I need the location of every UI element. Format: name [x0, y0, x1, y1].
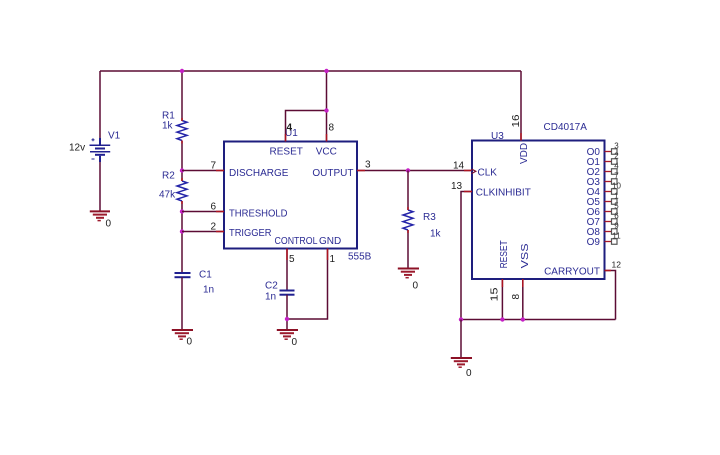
svg-text:TRIGGER: TRIGGER: [229, 228, 272, 239]
capacitor C1: [175, 273, 191, 277]
wire C2 bottom: [286, 295, 288, 330]
svg-text:C1: C1: [199, 270, 212, 281]
svg-text:7: 7: [210, 161, 216, 172]
svg-text:9: 9: [614, 222, 619, 231]
svg-text:15: 15: [490, 287, 501, 302]
svg-text:0: 0: [413, 281, 419, 292]
svg-text:1k: 1k: [162, 121, 174, 132]
wire pin 6: [182, 211, 224, 213]
svg-text:14: 14: [453, 161, 465, 172]
pin 4 wire: [286, 111, 327, 142]
capacitor C2: [280, 291, 295, 295]
wire bottom rail: [461, 319, 616, 321]
svg-text:47k: 47k: [159, 190, 176, 201]
svg-text:0: 0: [106, 219, 112, 230]
svg-text:RESET: RESET: [499, 240, 510, 268]
ground 0 (U3): [451, 358, 472, 379]
svg-text:1: 1: [614, 192, 619, 201]
svg-text:13: 13: [451, 181, 463, 192]
node junction pin8/rail: [521, 317, 525, 321]
svg-text:VSS: VSS: [520, 243, 531, 268]
svg-text:3: 3: [365, 160, 371, 171]
svg-text:6: 6: [210, 202, 216, 213]
ground 0 (V1): [90, 211, 112, 229]
resistor R2: [177, 181, 187, 201]
svg-text:GND: GND: [319, 236, 341, 247]
wire pin 7: [182, 170, 224, 172]
svg-text:10: 10: [612, 182, 621, 191]
wire pin 15: [501, 279, 503, 320]
wire R1 column top: [181, 71, 183, 121]
svg-text:4: 4: [287, 123, 293, 134]
wire R2 bottom to C1: [181, 201, 183, 273]
node junction top rail / R1: [180, 69, 184, 73]
svg-text:11: 11: [612, 232, 621, 241]
svg-text:DISCHARGE: DISCHARGE: [229, 168, 289, 179]
node junction top rail / VCC: [324, 69, 328, 73]
output pin numbers: [612, 142, 621, 241]
svg-text:O9: O9: [587, 237, 601, 248]
svg-text:U3: U3: [491, 131, 504, 142]
svg-text:VDD: VDD: [519, 143, 530, 164]
svg-text:THRESHOLD: THRESHOLD: [229, 209, 288, 220]
ground 0 (C2): [277, 330, 298, 348]
svg-text:CLKINHIBIT: CLKINHIBIT: [476, 188, 531, 199]
node junction pin15/rail: [500, 317, 504, 321]
svg-text:555B: 555B: [348, 252, 372, 263]
svg-text:8: 8: [329, 123, 335, 134]
svg-text:C2: C2: [265, 281, 278, 292]
svg-text:7: 7: [614, 172, 619, 181]
resistor R3: [403, 210, 413, 230]
output terminal squares: [612, 149, 618, 245]
wire pin 3 output: [357, 170, 472, 172]
IC U3 CD4017A box: [472, 141, 605, 280]
wire pin 8 (VSS): [522, 279, 524, 320]
svg-text:0: 0: [292, 337, 298, 348]
svg-text:1n: 1n: [265, 292, 276, 303]
op-amp-style IC U1 555 timer box: [224, 142, 357, 249]
node pin2 junction: [180, 229, 184, 233]
svg-text:V1: V1: [108, 131, 121, 142]
svg-text:RESET: RESET: [270, 147, 303, 158]
output pin stubs: [605, 152, 612, 242]
wire V1 bottom: [99, 157, 101, 211]
wire R1 bottom to R2: [181, 141, 183, 182]
svg-text:VCC: VCC: [316, 147, 337, 158]
svg-text:8: 8: [511, 294, 522, 300]
node junction C2 / pin1: [285, 317, 289, 321]
wire pin 1: [287, 249, 328, 320]
svg-text:5: 5: [614, 202, 619, 211]
battery V1: [90, 138, 111, 162]
pin 8 wire: [326, 71, 328, 142]
node junction output / R3: [406, 168, 410, 172]
svg-text:3: 3: [614, 142, 619, 151]
svg-text:0: 0: [466, 368, 472, 379]
svg-text:OUTPUT: OUTPUT: [312, 168, 353, 179]
svg-text:CARRYOUT: CARRYOUT: [544, 267, 600, 278]
node pin6 junction: [180, 209, 184, 213]
node junction pin4/pin8: [324, 108, 328, 112]
svg-text:5: 5: [289, 254, 295, 265]
svg-text:6: 6: [614, 212, 619, 221]
svg-text:CLK: CLK: [478, 168, 498, 179]
svg-text:16: 16: [511, 114, 522, 128]
outputs O0-O9: [587, 147, 601, 248]
svg-text:CD4017A: CD4017A: [544, 122, 588, 133]
svg-text:0: 0: [187, 337, 193, 348]
svg-text:4: 4: [614, 162, 619, 171]
svg-text:1k: 1k: [430, 229, 442, 240]
svg-text:2: 2: [614, 152, 619, 161]
wire rail to ground: [460, 320, 462, 358]
resistor R1: [177, 121, 187, 141]
svg-text:12v: 12v: [69, 143, 85, 154]
wire C1 bottom: [181, 277, 183, 329]
svg-text:2: 2: [210, 222, 216, 233]
svg-text:R3: R3: [423, 212, 436, 223]
wire pin 12 carryout: [605, 271, 616, 320]
wire pin 16 VDD: [520, 71, 522, 141]
svg-text:CONTROL: CONTROL: [275, 236, 318, 247]
wire R3 top: [407, 171, 409, 211]
wire top rail: [100, 70, 521, 72]
wire pin 5: [286, 249, 288, 291]
wire pin 13: [461, 192, 472, 320]
wire pin 2: [182, 231, 224, 233]
svg-text:12: 12: [612, 260, 622, 270]
wire V1 top: [99, 71, 101, 140]
node pin7 junction: [180, 168, 184, 172]
svg-text:1n: 1n: [203, 285, 214, 296]
svg-text:R2: R2: [162, 171, 175, 182]
wire R3 bottom: [407, 230, 409, 268]
svg-text:1: 1: [330, 254, 336, 265]
clock chevron pin 14: [472, 169, 476, 174]
ground 0 (C1): [172, 330, 193, 348]
node junction rail/ground: [459, 317, 463, 321]
ground 0 (R3): [398, 269, 419, 292]
red pin stubs at component pins: [182, 118, 611, 287]
